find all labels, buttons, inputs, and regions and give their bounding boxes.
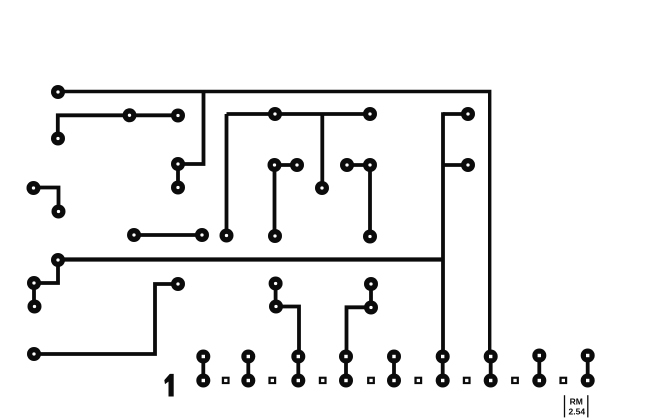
pad P6 — [171, 181, 185, 195]
pad B2 top — [241, 350, 255, 364]
square pad S4 — [367, 377, 375, 384]
wire pad link (371,284)-(371,307.5) — [369, 284, 373, 308]
wire bottom pair link 6 — [441, 357, 445, 381]
square pad S2 — [268, 377, 276, 384]
pad B8 bottom — [532, 374, 546, 388]
square pad holes — [224, 379, 227, 382]
scale marker bars — [565, 395, 588, 417]
wire bottom pair link 4 — [344, 357, 348, 381]
square pad S8 — [559, 377, 567, 384]
pad B1 top — [196, 350, 210, 364]
pad P29 — [364, 277, 378, 291]
wire link pads (134,235)-(202,235) — [134, 233, 202, 237]
wire vertical (274.5,165)-(274.5,236) — [273, 165, 277, 236]
pad B9 bottom — [581, 374, 595, 388]
wire pad (34,354) up-right to pad (178,284) — [34, 284, 178, 354]
pad P14 — [363, 107, 377, 121]
square pad S5 — [414, 377, 422, 384]
pad holes — [56, 90, 59, 93]
pad P28 — [269, 300, 283, 314]
pad P30 — [364, 301, 378, 315]
pad P2 — [123, 108, 137, 122]
pad B7 bottom — [484, 374, 498, 388]
pad P7 — [268, 158, 282, 172]
pad B3 top — [291, 350, 305, 364]
pad B6 bottom — [436, 374, 450, 388]
pad B7 top — [484, 350, 498, 364]
pad P5 — [171, 157, 185, 171]
pad P11 — [461, 107, 475, 121]
wire bottom pair link 5 — [392, 357, 396, 381]
pin 1 label — [164, 374, 173, 397]
pad B4 top — [339, 350, 353, 364]
wire pad (276,306.5) to bottom pad B3 — [276, 307, 299, 357]
pad P3 — [171, 109, 185, 123]
wire pad (371,307.5) to bottom pad B4 — [347, 307, 372, 356]
pad B1 bottom — [196, 374, 210, 388]
wire pad link (178,164)-(178,187.5) — [176, 164, 180, 188]
pad P19 — [195, 228, 209, 242]
wire long horizontal y=259.5 — [58, 257, 443, 261]
pad P23 — [51, 253, 65, 267]
pad B8 top — [532, 349, 546, 363]
pad P20 — [220, 229, 234, 243]
pad B4 bottom — [339, 374, 353, 388]
svg-text:2.54: 2.54 — [569, 406, 586, 416]
wire bottom pair link 1 — [201, 357, 205, 381]
pad P12 — [461, 158, 475, 172]
pad P4 — [51, 132, 65, 146]
wire corner pad (58,260) to pad (34,283) — [34, 260, 58, 283]
pad P13 — [268, 107, 282, 121]
pad P25 — [28, 300, 42, 314]
pad P8 — [290, 158, 304, 172]
pad B9 top — [581, 349, 595, 363]
wire bottom pair link 7 — [489, 357, 493, 381]
wire vertical x=322.3 — [320, 114, 324, 188]
wire vertical x=226.5 — [225, 114, 229, 236]
wire top rail y=91.5 with right vertical down to pad row — [58, 92, 490, 357]
wire bottom pair link 3 — [296, 357, 300, 381]
pad P27 — [269, 277, 283, 291]
square pad S3 — [319, 377, 327, 384]
pad P18 — [127, 228, 141, 242]
pad B2 bottom — [241, 374, 255, 388]
pad P22 — [363, 230, 377, 244]
wire bottom pair link 8 — [537, 357, 541, 381]
pad P1 — [51, 85, 65, 99]
wire horizontal y=115 with corner down at x=57.8 — [58, 115, 178, 138]
pad P16 — [27, 181, 41, 195]
pad B3 bottom — [291, 374, 305, 388]
wire pad link (34,283)-(34,306.5) — [32, 283, 36, 307]
wire bottom pair link 2 — [246, 357, 250, 381]
wire link pads (347,165)-(370,165) — [347, 163, 370, 167]
pad P31 — [27, 347, 41, 361]
pad B5 bottom — [387, 374, 401, 388]
wire corner pad (33.5,187.5) to pad (58.5,211.5) — [34, 188, 59, 212]
wire long vertical x=443 — [441, 112, 445, 356]
wire stub to pad (468,114) — [443, 112, 468, 116]
pad P15 — [315, 181, 329, 195]
pad P17 — [52, 205, 66, 219]
square pad S1 — [222, 377, 230, 384]
pad P24 — [27, 276, 41, 290]
wire vertical x=203.5 from rail down, stub left to pad — [178, 92, 204, 164]
square pad S6 — [463, 377, 471, 384]
pad B5 top — [387, 350, 401, 364]
wire bottom pair link 9 — [586, 357, 590, 381]
pad B6 top — [436, 350, 450, 364]
wire link pads (274.5,165)-(297,165) — [275, 163, 298, 167]
wire horizontal y=114 from x=226.5 to x=370 — [227, 112, 371, 116]
bottom row pad holes (square) — [202, 355, 205, 358]
wire pad link (275.6,283.5)-(275.6,306.5) — [274, 284, 278, 307]
pad P10 — [363, 158, 377, 172]
wire stub to pad (468,165) — [443, 163, 468, 167]
wire vertical (370,165)-(370,236.5) — [368, 165, 372, 237]
pad P26 — [171, 277, 185, 291]
pad P9 — [340, 158, 354, 172]
pad P21 — [268, 229, 282, 243]
square pad S7 — [511, 377, 519, 384]
svg-text:RM: RM — [570, 397, 583, 407]
